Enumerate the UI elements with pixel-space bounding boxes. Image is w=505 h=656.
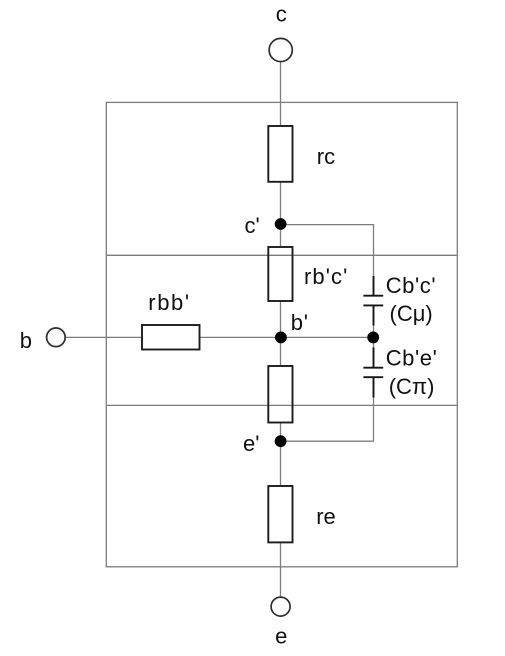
svg-text:b': b' — [291, 310, 309, 335]
wire c terminal to resistor rc — [280, 63, 282, 127]
terminal e — [271, 597, 290, 616]
svg-text:(Cπ): (Cπ) — [389, 374, 435, 399]
wire rc to node c' — [280, 182, 282, 224]
svg-text:Cb'e': Cb'e' — [386, 345, 438, 370]
capacitor Cb'c' — [363, 276, 383, 326]
node b' — [275, 332, 287, 344]
svg-text:c': c' — [245, 213, 260, 238]
terminal c — [269, 38, 292, 61]
wire rb'c' to node b' — [280, 301, 282, 337]
svg-text:c: c — [276, 1, 287, 26]
wire node c' to resistor rb'c' — [280, 224, 282, 247]
wire capacitor Cb'e' to node e' — [281, 398, 374, 442]
capacitor Cb'e' — [363, 348, 383, 398]
transistor body outline box — [106, 102, 457, 566]
svg-text:(Cμ): (Cμ) — [390, 301, 433, 326]
wire column junction to capacitor Cb'e' — [373, 337, 375, 347]
junction on capacitor column at b' level — [367, 332, 379, 344]
node e' — [275, 435, 287, 447]
svg-text:Cb'c': Cb'c' — [386, 273, 437, 298]
svg-text:rb'c': rb'c' — [304, 264, 348, 289]
svg-text:e': e' — [243, 431, 259, 456]
wire rbb' to node b' and junction on capacitor column — [200, 336, 374, 338]
wire node b' to resistor rb'e' — [280, 337, 282, 366]
svg-text:rc: rc — [317, 144, 335, 169]
svg-text:e: e — [275, 623, 287, 648]
svg-text:rbb': rbb' — [148, 290, 190, 315]
wire rb'e' to node e' — [280, 423, 282, 442]
wire b terminal to resistor rbb' — [66, 336, 142, 338]
wire node e' to resistor re — [280, 441, 282, 486]
svg-text:b: b — [20, 328, 32, 353]
resistor rb'e' — [268, 366, 292, 423]
svg-text:re: re — [316, 504, 336, 529]
terminal b — [47, 328, 66, 347]
region divider line 1 — [106, 254, 457, 256]
node c' — [275, 218, 287, 230]
resistor re — [268, 486, 292, 542]
wire re to e terminal — [280, 542, 282, 596]
resistor rbb' — [142, 325, 200, 350]
wire capacitor Cb'c' to column junction — [373, 326, 375, 338]
resistor rc — [268, 126, 292, 182]
region divider line 2 — [106, 404, 457, 406]
wire node c' to capacitor column — [281, 225, 374, 276]
resistor rb'c' — [268, 247, 292, 301]
